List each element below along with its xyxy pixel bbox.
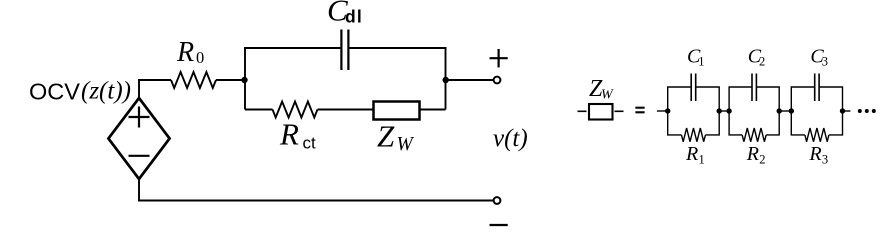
wire source top to mid rail <box>139 80 171 98</box>
wire R0 to node A <box>216 79 245 81</box>
resistor R2 <box>742 128 766 142</box>
svg-text:R: R <box>279 117 299 152</box>
svg-text:1: 1 <box>699 152 705 166</box>
svg-text:OCV: OCV <box>29 79 80 105</box>
label ZW symbol <box>589 76 614 103</box>
label R2 <box>746 143 766 166</box>
label C3 <box>810 45 828 68</box>
resistor Rct <box>273 102 318 118</box>
node dot right of RC pair 1 <box>717 108 722 113</box>
dependent voltage source OCV diamond <box>108 98 169 179</box>
svg-text:dl: dl <box>345 7 363 27</box>
label v(t) <box>493 125 528 152</box>
resistor R0 <box>171 72 216 88</box>
svg-text:3: 3 <box>822 152 828 166</box>
label C1 <box>687 45 704 68</box>
node A dot <box>241 77 247 83</box>
svg-text:3: 3 <box>822 54 828 68</box>
wire top rail left <box>244 47 341 49</box>
minus sign inside source <box>129 155 150 157</box>
svg-text:R: R <box>176 37 194 68</box>
wire top rail right <box>349 47 446 49</box>
impedance ZW symbol box <box>578 104 624 120</box>
node dot right of RC pair 2 <box>777 108 782 113</box>
plus sign terminal <box>490 49 508 67</box>
svg-text:2: 2 <box>759 152 765 166</box>
equals sign <box>635 108 644 113</box>
plus sign inside source <box>129 107 150 128</box>
label OCV(z(t)) <box>29 78 131 105</box>
svg-text:Z: Z <box>377 119 395 154</box>
wire loop of RC pair 1 <box>668 87 720 135</box>
resistor R1 <box>681 128 705 142</box>
svg-text:R: R <box>808 143 821 165</box>
wire lead into ladder <box>657 110 668 112</box>
minus sign terminal <box>490 224 508 226</box>
svg-text:ct: ct <box>303 134 317 153</box>
resistor R3 <box>805 128 829 142</box>
node dot left of RC pair 1 <box>665 108 670 113</box>
node B dot <box>443 77 449 83</box>
wire right edge of parallel section <box>445 48 447 110</box>
capacitor Cdl <box>341 30 348 71</box>
label R0 <box>176 37 204 68</box>
wire ZW to right edge <box>421 109 446 111</box>
wire Rct to ZW <box>318 109 373 111</box>
capacitor C1 <box>691 74 696 102</box>
wire between RC pairs <box>779 110 791 112</box>
label Cdl <box>327 0 363 28</box>
wire bottom branch left <box>245 109 273 111</box>
svg-text:0: 0 <box>196 48 204 67</box>
wire between RC pairs <box>719 110 729 112</box>
svg-text:1: 1 <box>698 54 704 68</box>
node dot left of RC pair 3 <box>789 108 794 113</box>
ellipsis dots <box>858 109 876 113</box>
svg-text:W: W <box>397 134 415 155</box>
wire left edge of parallel section <box>244 48 246 110</box>
label R1 <box>685 143 705 166</box>
svg-text:W: W <box>601 88 614 103</box>
label Rct <box>279 117 316 153</box>
wire loop of RC pair 3 <box>791 87 842 135</box>
node dot left of RC pair 2 <box>726 108 731 113</box>
positive terminal circle <box>494 77 501 84</box>
node dot right of RC pair 3 <box>840 108 845 113</box>
capacitor C2 <box>752 74 756 102</box>
svg-text:R: R <box>685 143 698 165</box>
wire node B to positive terminal <box>446 79 494 81</box>
wire lead out of ladder <box>843 110 851 112</box>
label C2 <box>748 45 766 68</box>
wire loop of RC pair 2 <box>729 87 779 135</box>
capacitor C3 <box>815 74 819 102</box>
svg-text:2: 2 <box>759 54 765 68</box>
wire source bottom down <box>139 179 494 201</box>
label R3 <box>808 143 828 166</box>
svg-text:R: R <box>746 143 759 165</box>
svg-text:(z(t)): (z(t)) <box>81 78 131 105</box>
impedance ZW box <box>374 102 420 120</box>
label ZW <box>377 119 415 156</box>
svg-text:v(t): v(t) <box>493 125 528 152</box>
negative terminal circle <box>494 197 501 204</box>
